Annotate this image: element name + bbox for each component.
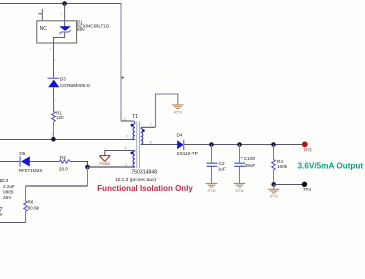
ground RTN under C100 bbox=[234, 183, 246, 187]
transformer T1 core lines bbox=[137, 122, 140, 169]
diode D3 body bbox=[48, 80, 59, 88]
ground PGND bbox=[99, 151, 110, 162]
svg-text:C3: C3 bbox=[2, 178, 8, 183]
diode D3 cathode bar bbox=[48, 77, 59, 79]
node junction top rail / D1 bbox=[62, 1, 67, 6]
svg-text:D5: D5 bbox=[19, 151, 25, 156]
ground RTN under C2 bbox=[206, 183, 218, 187]
wire D5 to R2 bbox=[30, 161, 60, 163]
wire junction down to lower rail bbox=[87, 167, 89, 186]
svg-text:R6: R6 bbox=[28, 200, 34, 205]
svg-text:Functional Isolation Only: Functional Isolation Only bbox=[97, 184, 193, 193]
diode D4 body bbox=[177, 140, 183, 149]
wire D1 box to D3 bbox=[53, 43, 55, 78]
capacitor C2 bbox=[207, 163, 218, 166]
svg-text:RTN: RTN bbox=[208, 188, 216, 193]
svg-text:25V: 25V bbox=[3, 195, 12, 200]
pin NC stub of D1 bbox=[38, 9, 42, 21]
wire R4 stub bbox=[273, 145, 275, 160]
svg-text:80.6k: 80.6k bbox=[28, 205, 40, 210]
resistor R1 bbox=[52, 111, 56, 122]
resistor R4 bbox=[272, 160, 276, 171]
wire C100 stub bbox=[239, 145, 241, 163]
svg-text:3.6V/5mA Output: 3.6V/5mA Output bbox=[298, 162, 364, 171]
wire T1 pin 7 lead bbox=[141, 127, 156, 128]
svg-text:7: 7 bbox=[150, 123, 152, 127]
svg-text:TP3: TP3 bbox=[303, 147, 312, 152]
svg-text:R2: R2 bbox=[60, 155, 66, 160]
resistor R6 bbox=[24, 201, 28, 212]
node junction R4 bottom bbox=[271, 182, 276, 187]
ground RTN near T1 bbox=[172, 105, 184, 109]
svg-text:NC: NC bbox=[40, 26, 48, 32]
wire junction to TP4 bbox=[274, 184, 302, 186]
wire C100 to RTN bbox=[239, 167, 241, 184]
wire vertical from top rail to T1 pin 3 bbox=[120, 4, 122, 122]
wire R4 junction to RTN bbox=[273, 185, 275, 190]
svg-text:0805: 0805 bbox=[3, 190, 14, 195]
wire R4 to junction bbox=[273, 170, 275, 185]
transformer T1 polarity dot primary bbox=[131, 124, 134, 127]
wire PGND to T1 pin 4 bbox=[105, 150, 135, 153]
wire pin7 up and over to RTN bbox=[156, 94, 178, 127]
op box around D1 bbox=[37, 21, 77, 43]
node junction C2 bbox=[209, 142, 214, 147]
svg-text:RTN: RTN bbox=[236, 188, 244, 193]
wire output rail D4 to TP3 bbox=[184, 144, 302, 146]
cut-off red mark at left edge bbox=[0, 213, 2, 215]
svg-text:D3: D3 bbox=[60, 76, 66, 81]
svg-text:3: 3 bbox=[124, 117, 126, 121]
svg-text:T1: T1 bbox=[132, 114, 138, 120]
svg-text:1: 1 bbox=[125, 163, 127, 167]
svg-text:100: 100 bbox=[56, 115, 64, 120]
wire T1 pin 3 lead bbox=[121, 121, 135, 124]
resistor R2 bbox=[59, 160, 69, 164]
transformer T1 polarity dot secondary bbox=[142, 129, 145, 132]
svg-text:CGRBM005-G: CGRBM005-G bbox=[60, 83, 91, 88]
wire D3 to R1 bbox=[53, 87, 55, 111]
svg-text:39uF: 39uF bbox=[245, 163, 256, 168]
svg-text:C100: C100 bbox=[244, 156, 256, 161]
transformer T1 secondary winding right bbox=[141, 128, 143, 144]
wire C2 to RTN bbox=[211, 167, 213, 184]
svg-text:750314848: 750314848 bbox=[131, 169, 157, 175]
transformer T1 aux winding bottom-left bbox=[133, 151, 135, 167]
node junction R4 bbox=[271, 142, 276, 147]
svg-text:SS110-TP: SS110-TP bbox=[177, 151, 198, 156]
transformer T1 primary winding top-left bbox=[133, 124, 135, 140]
svg-text:7: 7 bbox=[0, 206, 3, 213]
svg-text:D4: D4 bbox=[177, 133, 183, 138]
wire R6 to bottom left bbox=[25, 212, 27, 223]
svg-text:4: 4 bbox=[125, 147, 127, 151]
wire R1 to rail bbox=[53, 122, 55, 140]
svg-text:TP4: TP4 bbox=[303, 187, 312, 192]
wire D1 cathode internal L path bbox=[54, 32, 65, 43]
svg-text:2: 2 bbox=[126, 135, 128, 139]
svg-text:RF071M2S: RF071M2S bbox=[19, 168, 43, 173]
diode D1 zener cathode bar bbox=[59, 30, 71, 34]
wire long mid rail to T1 pin 2 bbox=[0, 139, 135, 141]
node junction at (87.5,167) bbox=[85, 165, 90, 170]
svg-text:10:1:3 (pri:sec:aux): 10:1:3 (pri:sec:aux) bbox=[115, 177, 156, 183]
capacitor C3 cut-off plates at left edge bbox=[0, 180, 2, 182]
svg-text:100k: 100k bbox=[277, 164, 288, 169]
test point TP3 bbox=[302, 142, 307, 147]
svg-text:20.0: 20.0 bbox=[59, 166, 69, 171]
wire D1 anode stub bbox=[64, 4, 66, 27]
wire T1 pin 1 lead bbox=[88, 166, 136, 168]
svg-text:PGND: PGND bbox=[99, 162, 110, 166]
transformer T1 polarity dot aux bbox=[131, 152, 134, 155]
wire R2 to corner and down to junction bbox=[70, 162, 88, 168]
test point TP4 bbox=[302, 182, 307, 187]
svg-text:68V: 68V bbox=[77, 27, 85, 32]
diode D1 zener body bbox=[59, 26, 71, 31]
svg-text:1uF: 1uF bbox=[218, 166, 226, 171]
diode D4 cathode bar bbox=[183, 140, 185, 150]
svg-text:RTN: RTN bbox=[174, 109, 182, 114]
ground RTN under R4 bbox=[268, 189, 280, 193]
wire top rail bbox=[0, 3, 122, 5]
wire T1 pin 6 lead to D4 bbox=[141, 143, 178, 145]
red tick on vertical wire bbox=[122, 77, 125, 78]
node junction R1 / rail bbox=[51, 137, 56, 142]
node junction C100 bbox=[237, 142, 242, 147]
wire D5 left lead bbox=[0, 161, 20, 163]
capacitor C100 polarized bbox=[234, 163, 245, 166]
svg-text:2.2uF: 2.2uF bbox=[3, 184, 15, 189]
svg-text:C2: C2 bbox=[219, 161, 225, 166]
svg-text:RTN: RTN bbox=[270, 194, 278, 199]
wire C2 stub bbox=[211, 145, 213, 163]
diode D5 cathode bar bbox=[19, 156, 21, 166]
diode D5 body bbox=[21, 156, 30, 166]
